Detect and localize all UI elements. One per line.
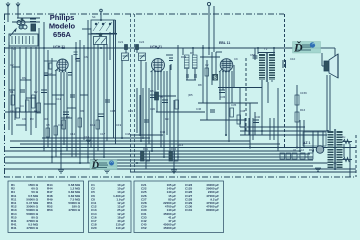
svg-text:C3: C3: [10, 109, 14, 113]
svg-text:45: 45: [160, 95, 164, 99]
svg-text:C/M: C/M: [196, 107, 202, 111]
svg-text:R5: R5: [150, 89, 154, 93]
svg-text:C9: C9: [234, 57, 238, 61]
svg-text:R13: R13: [181, 55, 187, 59]
svg-text:R11: R11: [143, 147, 148, 151]
svg-text:C35: C35: [231, 103, 237, 107]
svg-text:C56: C56: [250, 53, 256, 57]
svg-text:C2: C2: [10, 63, 14, 67]
svg-text:C52: C52: [141, 226, 147, 230]
svg-text:R13: R13: [309, 148, 315, 152]
svg-text:R3: R3: [30, 117, 34, 121]
svg-text:R16: R16: [300, 108, 306, 112]
svg-text:Ď: Ď: [293, 41, 303, 55]
svg-text:C21: C21: [118, 40, 124, 44]
svg-text:C30: C30: [150, 107, 156, 111]
svg-text:U1: U1: [293, 148, 297, 152]
svg-text:R3: R3: [44, 117, 48, 121]
svg-text:R53: R53: [47, 208, 53, 212]
svg-text:80000 µF: 80000 µF: [206, 208, 219, 212]
svg-text:UCH 21: UCH 21: [53, 45, 65, 49]
svg-text:C7: C7: [48, 72, 52, 76]
svg-text:C131: C131: [185, 208, 193, 212]
svg-text:R12: R12: [171, 147, 177, 151]
svg-text:R6: R6: [22, 76, 26, 80]
svg-text:C20: C20: [91, 226, 97, 230]
svg-text:AZ 1: AZ 1: [303, 141, 310, 145]
svg-text:L1: L1: [13, 47, 17, 51]
svg-text:C15: C15: [84, 135, 90, 139]
svg-text:C12: C12: [70, 132, 76, 136]
svg-text:C8: C8: [46, 123, 50, 127]
svg-text:R1: R1: [10, 90, 14, 94]
svg-text:C24: C24: [139, 40, 145, 44]
svg-text:C40: C40: [255, 115, 261, 119]
svg-text:C10: C10: [290, 57, 296, 61]
svg-text:R14: R14: [178, 143, 184, 147]
svg-text:110 µF: 110 µF: [116, 226, 125, 230]
svg-text:C18: C18: [110, 109, 116, 113]
svg-text:C5: C5: [75, 57, 79, 61]
svg-text:R4: R4: [66, 115, 70, 119]
svg-text:EBL 11: EBL 11: [219, 41, 230, 45]
svg-text:R7: R7: [190, 51, 194, 55]
svg-text:C38: C38: [240, 109, 246, 113]
svg-text:C19: C19: [116, 123, 122, 127]
svg-text:C2: C2: [205, 63, 209, 67]
svg-text:C159: C159: [300, 91, 307, 95]
svg-text:C48: C48: [125, 132, 131, 136]
svg-text:656A: 656A: [53, 30, 72, 39]
svg-text:C11: C11: [56, 97, 61, 101]
svg-text:C6: C6: [84, 55, 88, 59]
svg-text:R8: R8: [80, 109, 84, 113]
svg-text:Ď: Ď: [91, 160, 100, 172]
svg-text:47000 Ω: 47000 Ω: [68, 208, 80, 212]
svg-text:R9: R9: [165, 117, 169, 121]
svg-text:Dx: Dx: [342, 135, 346, 139]
svg-text:L2: L2: [301, 148, 305, 152]
svg-text:C22: C22: [128, 109, 134, 113]
svg-text:R41: R41: [11, 226, 17, 230]
svg-text:R2: R2: [34, 90, 38, 94]
svg-text:T2: T2: [264, 47, 268, 51]
svg-text:C45: C45: [160, 130, 166, 134]
svg-text:C16: C16: [90, 123, 96, 127]
svg-text:(R5: (R5: [188, 93, 193, 97]
svg-text:C36: C36: [220, 95, 226, 99]
svg-text:C9: C9: [22, 117, 26, 121]
svg-text:C14: C14: [58, 123, 64, 127]
svg-text:45000 µF: 45000 µF: [163, 226, 176, 230]
svg-text:S4: S4: [92, 15, 96, 19]
svg-text:UCH 21: UCH 21: [150, 45, 162, 49]
svg-text:R8: R8: [198, 83, 202, 87]
svg-text:C4: C4: [20, 104, 24, 108]
svg-text:R2: R2: [34, 109, 38, 113]
svg-text:C17: C17: [100, 132, 106, 136]
svg-text:47000 Ω: 47000 Ω: [26, 226, 38, 230]
